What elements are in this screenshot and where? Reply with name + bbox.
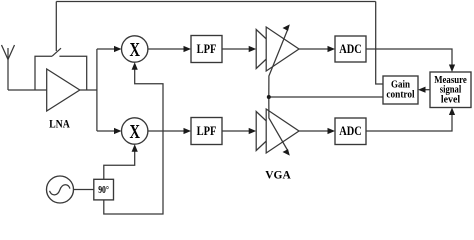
svg-text:LPF: LPF xyxy=(197,124,217,138)
wire LPF2 to VGA2 xyxy=(222,130,250,132)
wire VGA2 gain arrow xyxy=(269,97,288,151)
svg-text:X: X xyxy=(129,121,140,143)
svg-text:X: X xyxy=(129,39,140,61)
arrowhead LO into mixer X2 xyxy=(132,144,138,152)
arrowhead into gain control xyxy=(418,87,426,93)
wire mixer X2 to LPF2 xyxy=(148,130,185,132)
arrowhead into VGA1 xyxy=(249,46,257,52)
VGA1 amplifier triangles xyxy=(256,27,299,71)
arrowhead into mixer X2 xyxy=(114,128,122,134)
label measure signal level xyxy=(434,75,467,106)
svg-text:90°: 90° xyxy=(98,185,109,196)
arrowhead into ADC1 xyxy=(328,46,336,52)
arrowhead VGA1 gain xyxy=(283,24,290,31)
arrowhead into ADC2 xyxy=(328,128,336,134)
mixer X1 circle xyxy=(122,36,148,62)
arrowhead into measure bottom xyxy=(449,108,455,116)
wire ADC1 to measure block xyxy=(366,49,452,66)
VGA2 amplifier triangles xyxy=(256,109,299,153)
antenna xyxy=(2,45,15,90)
wire RF to mixer X2 xyxy=(97,130,116,132)
junction dot gain node xyxy=(267,95,271,99)
arrowhead VGA2 gain xyxy=(283,149,290,156)
svg-text:ADC: ADC xyxy=(339,42,362,56)
wire rail left leg to switch xyxy=(55,2,57,52)
wire LPF1 to VGA1 xyxy=(222,48,250,50)
wire RF split vertical xyxy=(96,49,98,131)
wire 90deg to mixer X2 LO xyxy=(104,151,135,180)
oscillator circle xyxy=(47,176,74,203)
ADC2 box xyxy=(335,118,366,145)
label gain control xyxy=(386,80,414,101)
wire oscillator to 90 deg box xyxy=(74,189,94,191)
wire rail right leg to gain control xyxy=(376,2,383,85)
LPF1 box xyxy=(191,36,222,63)
LPF2 box xyxy=(191,118,222,145)
arrowhead into VGA2 xyxy=(249,128,257,134)
oscillator sine wave xyxy=(50,185,71,195)
ADC1 box xyxy=(335,36,366,62)
wire VGA1 gain arrow xyxy=(269,30,288,98)
svg-text:control: control xyxy=(386,89,414,100)
wire RF to mixer X1 xyxy=(97,48,116,50)
wire 0deg to mixer X1 LO xyxy=(104,69,163,215)
arrowhead into LPF2 xyxy=(184,128,192,134)
phase shifter 90deg box xyxy=(94,179,114,200)
wire mixer X1 to LPF1 xyxy=(148,48,185,50)
wire LNA output xyxy=(80,89,97,91)
svg-text:LNA: LNA xyxy=(49,117,70,131)
wire top control rail xyxy=(56,1,375,3)
svg-text:LPF: LPF xyxy=(197,42,217,56)
measure signal level box xyxy=(430,72,471,108)
arrowhead into mixer X1 xyxy=(114,46,122,52)
wire antenna to LNA input xyxy=(8,89,47,91)
wire measure to gain control xyxy=(424,89,430,91)
svg-text:VGA: VGA xyxy=(265,168,291,182)
svg-text:ADC: ADC xyxy=(339,124,362,138)
svg-text:level: level xyxy=(441,95,460,106)
arrowhead into LPF1 xyxy=(184,46,192,52)
arrowhead LO into mixer X1 xyxy=(132,62,138,69)
gain control box xyxy=(383,76,418,104)
wire VGA1 output to ADC1 xyxy=(299,48,329,50)
arrowhead into measure top xyxy=(449,65,455,73)
mixer X2 circle xyxy=(122,118,148,144)
switch S1 LNA bypass xyxy=(35,48,87,90)
wire gain control to VGA gain node xyxy=(269,96,383,98)
wire VGA2 output to ADC2 xyxy=(299,130,329,132)
LNA amplifier triangle xyxy=(47,69,80,111)
wire ADC2 to measure block xyxy=(366,114,452,131)
